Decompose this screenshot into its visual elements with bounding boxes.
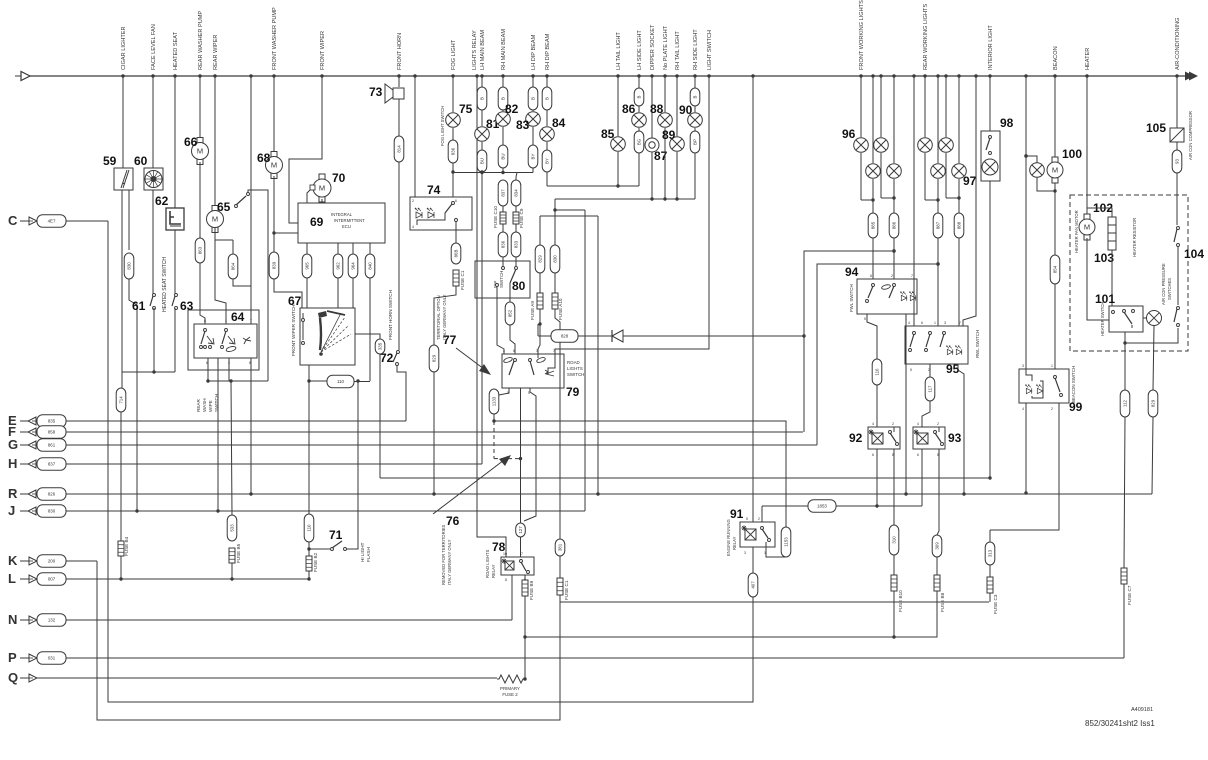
- wire 62 to switch 63: [174, 230, 176, 295]
- svg-text:REAR WIPER: REAR WIPER: [213, 35, 219, 70]
- svg-text:836: 836: [501, 240, 506, 248]
- svg-text:836: 836: [451, 147, 456, 155]
- wire 72 to E: [397, 365, 406, 421]
- wire 116 to relay 92: [876, 385, 878, 427]
- svg-text:RELAY: RELAY: [491, 564, 496, 578]
- wire 533 capsule: [227, 515, 237, 541]
- wire 1026 drop: [1025, 76, 1027, 369]
- svg-text:SWITCHES: SWITCHES: [1167, 278, 1172, 300]
- svg-text:HEATED SEAT: HEATED SEAT: [173, 31, 179, 70]
- wire fuse C1a down: [434, 286, 456, 345]
- svg-text:829: 829: [432, 354, 437, 362]
- heater switch 101: [1109, 306, 1143, 332]
- wire 94 bottom b: [905, 314, 907, 494]
- wire 64 pin1 down: [217, 358, 219, 511]
- svg-text:888: 888: [957, 221, 962, 229]
- svg-text:8: 8: [505, 578, 507, 582]
- wire bus drop 753: [752, 76, 754, 522]
- relay 92: [868, 427, 900, 449]
- connector C with wire 4E7: [8, 213, 108, 228]
- svg-text:3: 3: [944, 321, 946, 325]
- fuse B10: [893, 555, 895, 575]
- svg-text:007: 007: [48, 577, 56, 582]
- primary fuse 2: [497, 675, 525, 683]
- wire 1153 capsule: [781, 527, 791, 557]
- svg-text:110: 110: [307, 524, 312, 532]
- svg-text:714: 714: [119, 396, 124, 404]
- wire 117 capsule: [925, 377, 935, 401]
- connector K wire 200: [8, 553, 97, 568]
- svg-text:61: 61: [132, 299, 146, 313]
- svg-text:N: N: [8, 612, 17, 627]
- wire 829b capsule: [535, 245, 545, 273]
- wire 313 capsule: [989, 530, 991, 542]
- connector F wire 858: [8, 424, 803, 439]
- rear working lamp b: [945, 76, 947, 137]
- svg-text:830: 830: [127, 262, 132, 270]
- svg-text:ITALY GERMANY ONLY: ITALY GERMANY ONLY: [447, 539, 452, 585]
- wire 965 to switch 67: [306, 278, 308, 308]
- heater resistor 103: [1087, 208, 1112, 217]
- svg-text:59: 59: [103, 154, 117, 168]
- svg-text:104: 104: [1184, 247, 1204, 261]
- RH main beam chain: [502, 76, 504, 87]
- wire 102 down: [1087, 238, 1109, 320]
- svg-text:WASH: WASH: [202, 398, 207, 412]
- svg-text:HEATER RESISTOR: HEATER RESISTOR: [1132, 218, 1137, 257]
- svg-text:INTEGRAL: INTEGRAL: [331, 212, 353, 217]
- svg-text:HEATED SEAT SWITCH: HEATED SEAT SWITCH: [162, 257, 168, 312]
- svg-text:76: 76: [446, 514, 460, 528]
- wire 885 to switch 94: [872, 238, 874, 279]
- svg-text:839: 839: [272, 261, 277, 269]
- aircon unit 105: [1170, 128, 1184, 142]
- fuse B4: [118, 541, 124, 556]
- svg-text:77: 77: [443, 333, 457, 347]
- svg-text:885: 885: [871, 221, 876, 229]
- svg-text:60: 60: [134, 154, 148, 168]
- svg-text:335: 335: [378, 342, 383, 350]
- wire 93 pin8 down: [937, 449, 939, 535]
- svg-text:No PLATE LIGHT: No PLATE LIGHT: [663, 25, 669, 70]
- RH dip beam chain: [546, 76, 548, 87]
- svg-text:Q: Q: [8, 670, 18, 685]
- svg-text:814: 814: [397, 145, 402, 153]
- svg-text:FRONT WIPER: FRONT WIPER: [320, 31, 326, 70]
- wire 96 merge a: [861, 199, 873, 201]
- wire 92 pin8 down: [893, 449, 895, 525]
- wire 199 line: [555, 198, 695, 200]
- svg-text:TERRITORIAL OPTION: TERRITORIAL OPTION: [436, 295, 441, 340]
- wire H up link: [481, 172, 483, 464]
- svg-text:112: 112: [1123, 399, 1128, 407]
- svg-text:FUSE C10: FUSE C10: [493, 206, 498, 228]
- svg-text:313: 313: [988, 549, 993, 557]
- connector E wire 835: [8, 413, 406, 428]
- wire B10 down: [893, 591, 895, 637]
- svg-text:ECU: ECU: [342, 224, 351, 229]
- svg-text:830: 830: [48, 509, 56, 514]
- svg-text:7: 7: [521, 552, 523, 556]
- wire 533 link up: [231, 381, 232, 515]
- wire 335 link: [355, 334, 380, 339]
- svg-text:FUSE C9: FUSE C9: [519, 208, 524, 228]
- svg-text:828: 828: [561, 334, 569, 339]
- svg-text:852: 852: [508, 309, 513, 317]
- ECU 69: [298, 203, 385, 243]
- wire 61 down: [153, 308, 155, 372]
- svg-text:FLASH: FLASH: [366, 547, 371, 562]
- svg-text:LIGHTS: LIGHTS: [567, 366, 583, 371]
- svg-text:833: 833: [514, 240, 519, 248]
- svg-text:4E7: 4E7: [48, 219, 56, 224]
- wire 127 capsule: [516, 523, 526, 537]
- wire horn to 814: [398, 99, 400, 136]
- wire 74 bottom: [455, 230, 457, 243]
- svg-text:H: H: [8, 456, 17, 471]
- wire 1153 to pin1: [766, 547, 786, 557]
- svg-text:69: 69: [310, 215, 324, 229]
- svg-text:BU: BU: [480, 158, 485, 164]
- svg-text:93: 93: [948, 431, 962, 445]
- svg-text:79: 79: [566, 385, 580, 399]
- fuse B8: [936, 557, 938, 575]
- svg-text:3: 3: [1022, 364, 1024, 368]
- wire 836 capsule: [448, 140, 458, 163]
- svg-text:852/30241sht2 Iss1: 852/30241sht2 Iss1: [1085, 719, 1155, 728]
- beacon motor 100: [1047, 157, 1063, 183]
- wire 64 pin8 down to R: [250, 358, 252, 494]
- svg-text:RELAY: RELAY: [732, 536, 737, 550]
- svg-text:FRONT WASHER PUMP: FRONT WASHER PUMP: [272, 7, 278, 70]
- wire 834 capsule: [516, 173, 517, 181]
- svg-text:863: 863: [198, 246, 203, 254]
- FWL switch 94: [857, 279, 917, 314]
- wire ECU pin c: [352, 243, 354, 254]
- wire C3 down: [989, 593, 991, 602]
- fuse B9: [522, 580, 528, 596]
- wire 864 stub: [232, 240, 234, 254]
- no plate light chain: [664, 76, 666, 112]
- svg-text:4: 4: [908, 321, 910, 325]
- wire fog drop: [452, 76, 454, 112]
- svg-text:826: 826: [48, 492, 56, 497]
- fuse C1b: [559, 556, 561, 578]
- fuse C10: [502, 206, 504, 212]
- svg-text:105: 105: [1146, 121, 1166, 135]
- wire 68 down: [273, 176, 275, 252]
- connector G wire 861: [8, 437, 817, 452]
- svg-text:CIGAR LIGHTER: CIGAR LIGHTER: [121, 26, 127, 70]
- svg-text:4: 4: [872, 422, 874, 426]
- wire 117 to relay 93: [922, 401, 930, 427]
- svg-text:C: C: [8, 213, 18, 228]
- svg-text:858: 858: [48, 430, 56, 435]
- wire 116 capsule: [872, 359, 882, 385]
- wire rear wiper drop: [214, 76, 216, 206]
- front wiper motor 70: [313, 174, 331, 202]
- svg-text:116: 116: [875, 368, 880, 376]
- svg-text:B: B: [693, 95, 698, 98]
- wire 83 down: [532, 168, 534, 173]
- wire 67 pin down L: [308, 365, 310, 514]
- svg-text:AIR-CONDITIONING: AIR-CONDITIONING: [1175, 17, 1181, 70]
- wire switch 65 up link: [248, 190, 268, 381]
- svg-text:3: 3: [536, 349, 538, 353]
- front washer pump motor 68: [266, 152, 283, 179]
- svg-text:L: L: [8, 571, 16, 586]
- wire 962 capsule: [333, 254, 343, 278]
- front horn 73: [393, 88, 404, 99]
- wire relay74 pin drop: [414, 76, 416, 197]
- diode: [578, 335, 612, 337]
- svg-text:LH TAIL LIGHT: LH TAIL LIGHT: [616, 32, 622, 70]
- wire A10 riser: [554, 199, 556, 245]
- wire 66 to 863: [199, 162, 201, 238]
- beacon lamp 100: [1026, 156, 1037, 163]
- svg-text:89: 89: [662, 128, 676, 142]
- svg-text:A409181: A409181: [1131, 707, 1153, 713]
- wire 964 to switch 67: [352, 278, 354, 308]
- wire F riser: [804, 251, 894, 432]
- wire C7 down: [1123, 584, 1125, 658]
- svg-text:65: 65: [217, 200, 231, 214]
- wire fan to switch 61: [152, 190, 154, 295]
- wire 381 capsule: [555, 539, 565, 556]
- wire B9 down: [524, 596, 526, 679]
- svg-text:861: 861: [48, 443, 56, 448]
- wire 112 down: [1124, 417, 1125, 568]
- wire 830b capsule: [550, 245, 560, 273]
- svg-text:AIR CON PRESSURE: AIR CON PRESSURE: [1161, 263, 1166, 305]
- svg-text:BU: BU: [501, 153, 506, 159]
- wire 829c capsule: [1148, 390, 1158, 417]
- wire fog to 836: [452, 128, 454, 140]
- road lights switch 79: [502, 354, 564, 388]
- wire washer pump drop: [199, 76, 201, 138]
- wire 830 capsule: [124, 253, 134, 279]
- svg-text:RWL SWITCH: RWL SWITCH: [975, 330, 980, 358]
- wire fan drop: [152, 76, 154, 168]
- svg-text:96: 96: [842, 127, 856, 141]
- wire 95 pin2 down: [929, 364, 931, 377]
- svg-text:FUSE C1: FUSE C1: [460, 270, 465, 290]
- wire 833 capsule: [515, 224, 517, 232]
- svg-text:BY: BY: [545, 158, 550, 164]
- wire 94 bottom a: [867, 314, 877, 359]
- wire 962 to switch 67: [337, 278, 339, 308]
- RH tail light chain: [676, 76, 678, 136]
- svg-text:200: 200: [48, 559, 56, 564]
- svg-text:2: 2: [937, 422, 939, 426]
- svg-text:86: 86: [622, 102, 636, 116]
- wire 110 capsule horizontal: [309, 380, 327, 382]
- svg-text:2: 2: [892, 422, 894, 426]
- wire 887 capsule: [933, 213, 943, 238]
- wire 829a to R: [433, 372, 435, 494]
- svg-text:63: 63: [180, 299, 194, 313]
- svg-text:B: B: [531, 97, 536, 100]
- rear wash wipe switch 64: [194, 324, 257, 358]
- svg-text:88: 88: [650, 102, 664, 116]
- svg-text:2: 2: [1051, 407, 1053, 411]
- rear working lamp a: [924, 76, 926, 137]
- wire ECU pin a: [306, 243, 308, 254]
- connector N wire 132: [8, 612, 512, 627]
- svg-text:RH TAIL LIGHT: RH TAIL LIGHT: [675, 31, 681, 70]
- svg-text:6: 6: [921, 321, 923, 325]
- svg-text:6: 6: [872, 453, 874, 457]
- wire 112 capsule: [1120, 390, 1130, 417]
- svg-text:B: B: [501, 97, 506, 100]
- svg-text:FUSE B10: FUSE B10: [898, 590, 903, 612]
- wire 96 merge b: [881, 197, 894, 199]
- svg-text:830: 830: [553, 255, 558, 263]
- wire 852 to switch79: [510, 325, 515, 354]
- wire G riser: [817, 264, 938, 445]
- RH side light chain: [694, 76, 696, 88]
- svg-text:132: 132: [48, 618, 56, 623]
- svg-text:BEACON: BEACON: [1053, 46, 1059, 70]
- switch 65: [235, 205, 238, 208]
- svg-text:FRONT WORKING LIGHTS: FRONT WORKING LIGHTS: [859, 0, 865, 70]
- svg-text:887: 887: [936, 221, 941, 229]
- svg-text:407: 407: [751, 581, 756, 589]
- svg-text:SWITCH: SWITCH: [499, 271, 504, 288]
- wire E segment: [494, 421, 786, 527]
- svg-text:FUSE B5: FUSE B5: [236, 543, 241, 563]
- wire 1133 to dot: [493, 414, 495, 421]
- svg-text:93: 93: [1175, 159, 1180, 164]
- dashed wire option: [493, 421, 495, 459]
- svg-text:LIGHT SWITCH: LIGHT SWITCH: [707, 30, 713, 70]
- wire heater drop: [1086, 76, 1088, 218]
- svg-text:1: 1: [1051, 364, 1053, 368]
- wire 216 line to R: [540, 215, 598, 217]
- wire 829c down: [1152, 417, 1153, 494]
- wire 829a capsule: [429, 345, 439, 372]
- wire 91 pin3 down: [752, 547, 754, 573]
- wire interior drop: [989, 76, 991, 131]
- svg-text:M: M: [197, 147, 203, 156]
- wire 127 to relay 78: [520, 537, 522, 557]
- svg-text:M: M: [319, 184, 325, 193]
- wire heated seat drop: [174, 76, 176, 208]
- svg-text:ENGINE RUNNING: ENGINE RUNNING: [726, 519, 731, 556]
- wire 110h right: [354, 381, 370, 383]
- svg-text:10: 10: [503, 552, 507, 556]
- svg-text:75: 75: [459, 102, 473, 116]
- svg-text:FUSE A9: FUSE A9: [530, 301, 535, 320]
- aircon pressure switch b: [1177, 307, 1180, 310]
- svg-text:97: 97: [963, 174, 977, 188]
- wire 407 capsule: [748, 573, 758, 597]
- wire 814 capsule: [394, 136, 404, 162]
- wire 82 down: [502, 168, 504, 173]
- wire 886 capsule: [889, 213, 899, 238]
- wire 852 capsule: [505, 302, 515, 325]
- wire dip switch feed: [502, 257, 504, 266]
- wire N to relay 78: [511, 575, 513, 620]
- svg-text:HEATER FAN MOTOR: HEATER FAN MOTOR: [1074, 210, 1079, 253]
- svg-text:P: P: [8, 650, 17, 665]
- fuse A9: [539, 273, 541, 293]
- svg-text:82: 82: [505, 102, 519, 116]
- wire 836 down: [452, 163, 454, 197]
- svg-text:HI LIGHT: HI LIGHT: [360, 542, 365, 562]
- wire 840 down: [369, 278, 371, 381]
- wire 97 merge a: [925, 199, 938, 201]
- wire front wiper to ECU: [289, 76, 322, 223]
- svg-text:70: 70: [332, 171, 346, 185]
- svg-text:965: 965: [305, 262, 310, 270]
- wire light switch drop: [555, 76, 709, 354]
- svg-text:2: 2: [758, 517, 760, 521]
- wire 98 down: [989, 181, 991, 478]
- option arrow 76: [433, 457, 508, 514]
- svg-text:BY: BY: [531, 154, 536, 160]
- svg-text:FUSE C3: FUSE C3: [993, 594, 998, 614]
- bus feed labels: [121, 0, 1181, 70]
- heated seat element 62: [166, 208, 184, 230]
- LH tail light chain: [617, 76, 619, 136]
- wire 101 down: [1124, 332, 1126, 390]
- svg-text:73: 73: [369, 85, 383, 99]
- svg-text:6: 6: [917, 453, 919, 457]
- svg-text:310: 310: [892, 536, 897, 544]
- svg-text:5: 5: [864, 317, 866, 321]
- wire A9 riser: [539, 216, 541, 245]
- svg-text:LH MAIN BEAM: LH MAIN BEAM: [480, 30, 486, 70]
- front wiper switch 67: [300, 308, 355, 365]
- svg-text:91: 91: [730, 507, 744, 521]
- wire beacon drop: [1054, 76, 1056, 157]
- svg-text:1153: 1153: [784, 537, 789, 547]
- svg-text:REAR WORKING LIGHTS: REAR WORKING LIGHTS: [923, 4, 929, 70]
- svg-text:BG: BG: [637, 138, 642, 145]
- svg-text:837: 837: [501, 189, 506, 197]
- interior light 98: [981, 131, 1000, 181]
- wire ECU pin d: [369, 243, 371, 254]
- svg-text:381: 381: [558, 543, 563, 551]
- wire aircon drop: [1176, 76, 1178, 128]
- svg-text:100: 100: [1062, 147, 1082, 161]
- svg-text:FACE LEVEL FAN: FACE LEVEL FAN: [151, 24, 157, 70]
- svg-text:837: 837: [48, 462, 56, 467]
- wire 1853 line: [762, 505, 808, 507]
- wire 93 pin6 down: [921, 449, 923, 506]
- connector H wire 837: [8, 456, 482, 471]
- wire 86B capsule: [451, 243, 461, 264]
- svg-text:ROAD: ROAD: [567, 360, 580, 365]
- wire 80 to 852: [509, 283, 511, 302]
- svg-text:M: M: [1052, 166, 1058, 175]
- svg-text:964: 964: [351, 262, 356, 270]
- svg-text:5: 5: [746, 517, 748, 521]
- wire P up to fuse C7: [1123, 588, 1125, 658]
- wire 65 motor down: [215, 228, 226, 324]
- svg-text:PRIMARY: PRIMARY: [500, 686, 520, 691]
- svg-text:REMOVED FOR TERRITORIES: REMOVED FOR TERRITORIES: [441, 524, 446, 585]
- wire 70 left terminal: [310, 185, 315, 190]
- wire 84 down: [546, 172, 548, 186]
- wire 79 pin5 down: [524, 388, 536, 521]
- wire 186 line: [547, 185, 639, 187]
- wire J up 585: [584, 210, 586, 511]
- wire 100 down: [1054, 183, 1056, 255]
- switch 64 outer box: [188, 310, 259, 370]
- svg-text:71: 71: [329, 528, 343, 542]
